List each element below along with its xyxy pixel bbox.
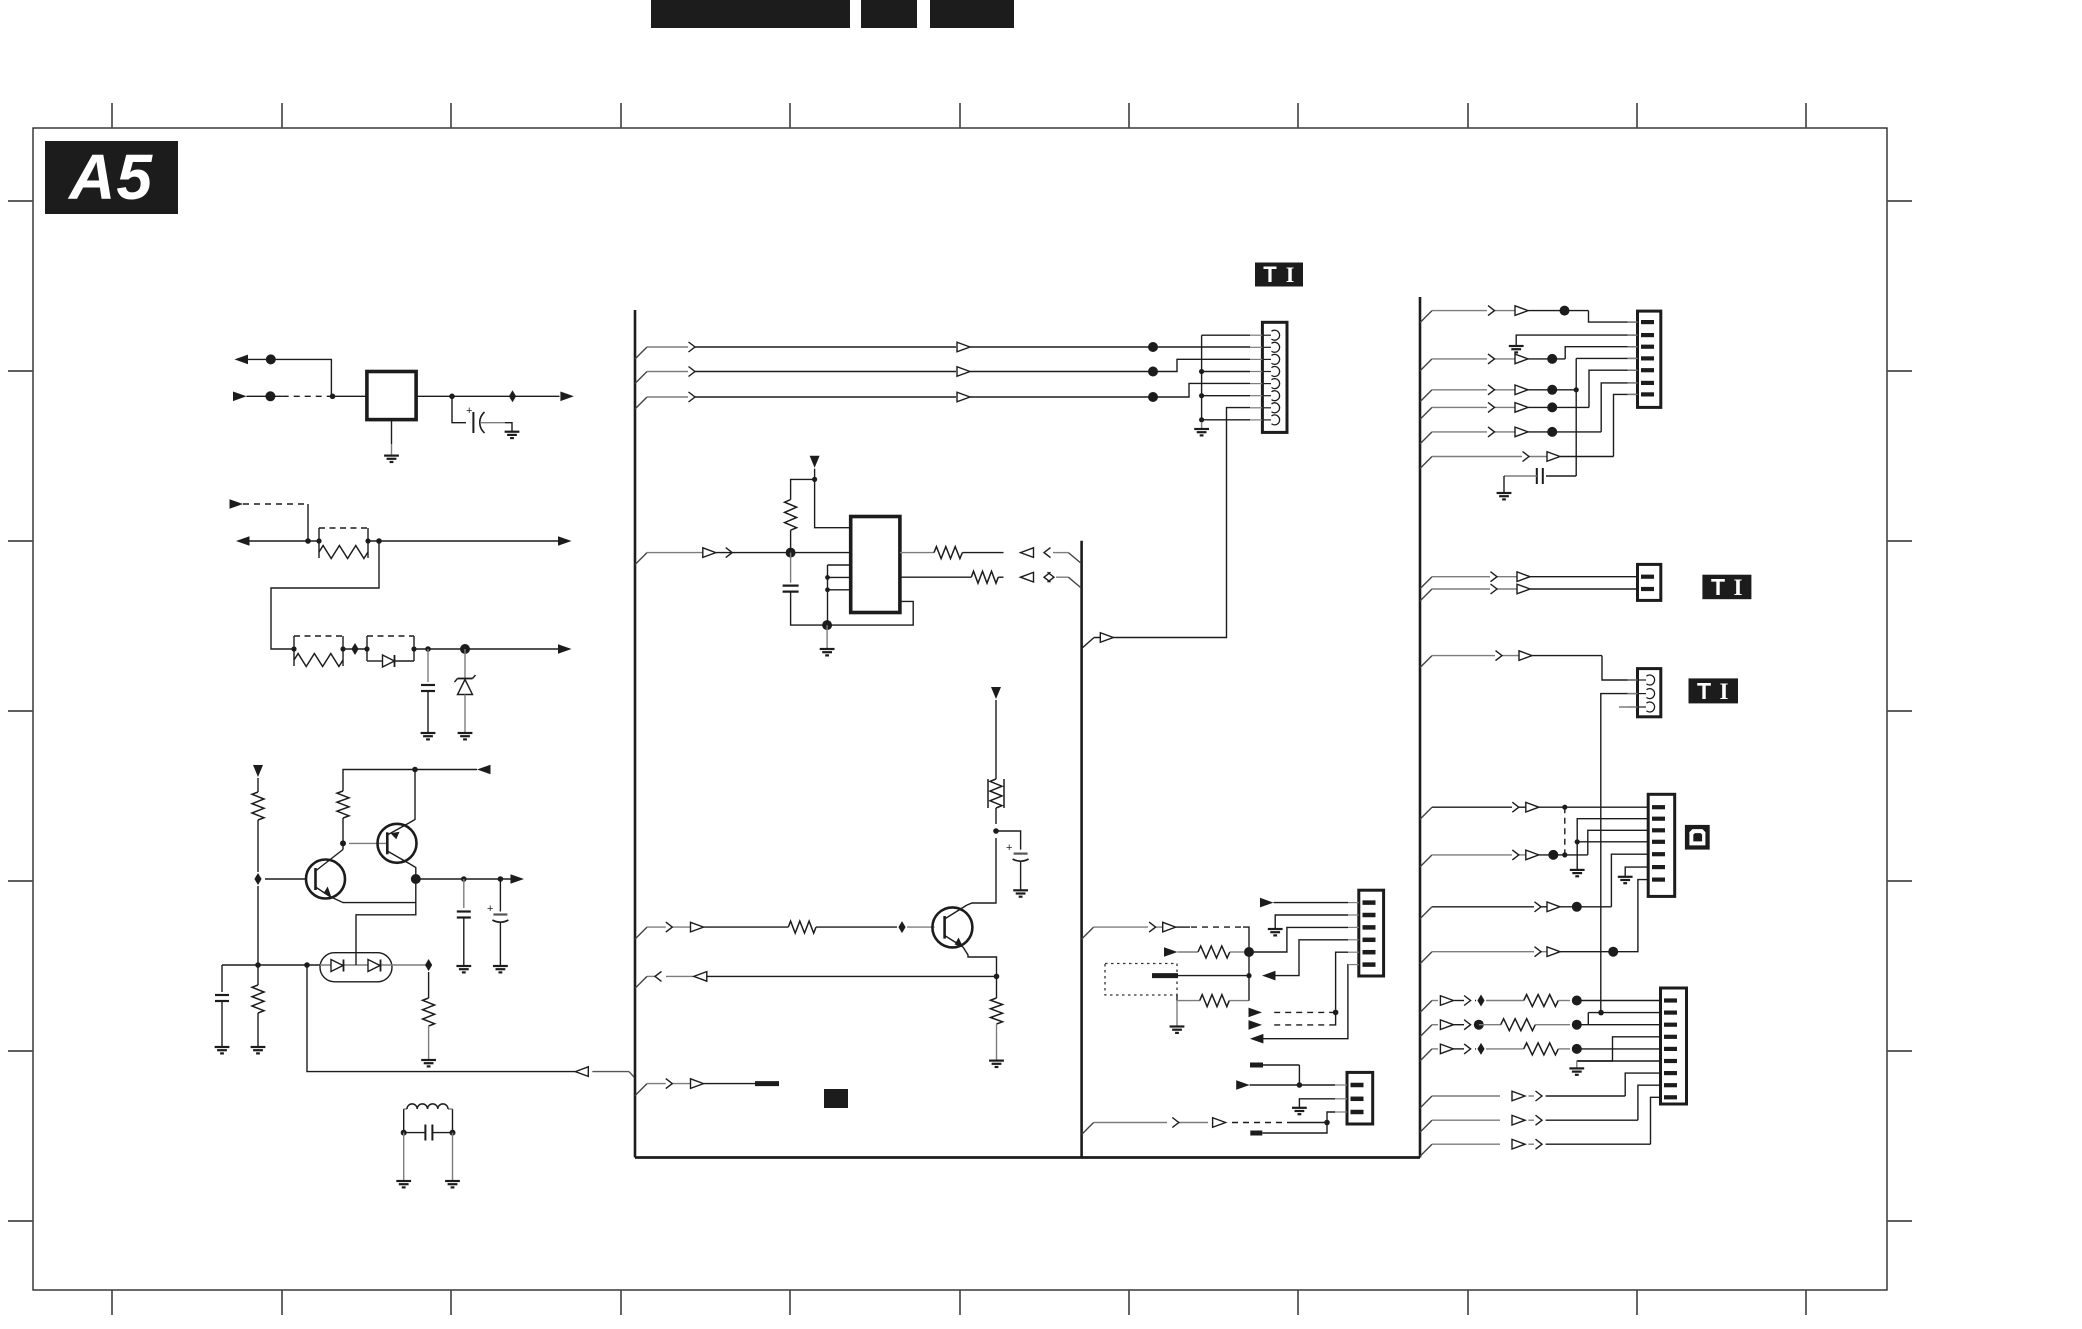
inductor L1 tank	[403, 1109, 405, 1133]
arrow chevron line T2	[689, 367, 696, 377]
arrow out relay output	[560, 392, 574, 402]
node dot CN4 row1	[1560, 306, 1570, 316]
node dot CN8 row2 a	[1474, 1020, 1484, 1030]
CN1 coil pin 5	[1250, 383, 1262, 385]
diamond diode row	[425, 959, 432, 971]
resistor R21	[252, 792, 264, 820]
CN8 pin bar 7	[1664, 1071, 1677, 1075]
arrow chevron line T3	[689, 392, 696, 402]
ground tank left	[396, 1180, 411, 1182]
wire line3 mid	[343, 648, 367, 650]
arrow chevron CN8 row4	[1536, 1091, 1543, 1101]
wire base node down	[257, 886, 259, 965]
arrow feedback open	[575, 1067, 588, 1077]
wire CN8 row1 to pin1	[1577, 1000, 1661, 1002]
node dot Q1/Q2	[340, 840, 346, 846]
wire feedback bus entry	[629, 1072, 635, 1078]
CN8 pin bar 6	[1664, 1059, 1677, 1063]
wire CN8 pin2 net	[1588, 1012, 1660, 1014]
wire bias chain down	[356, 879, 416, 958]
wire pinA to bus	[1053, 552, 1068, 554]
wire CN4 row1 bus entry	[1420, 311, 1432, 323]
node dot lower line	[265, 391, 275, 401]
node junction to lower line	[330, 394, 336, 400]
wire Q2 collector down	[410, 864, 416, 879]
arrow chevron Q3 row	[666, 922, 673, 932]
wire CN8 row1 res	[1486, 1000, 1524, 1002]
wire line T2	[647, 371, 688, 373]
diamond line3	[351, 643, 358, 655]
power feed V2	[810, 456, 820, 468]
power feed V3	[991, 687, 1001, 699]
wire R33 to diamond	[816, 926, 897, 928]
wire CN7 pin2+4 ground	[1577, 819, 1648, 870]
CN4 pin bar 5	[1628, 369, 1638, 371]
connector CN8 9-pin	[1661, 988, 1687, 1104]
node small CN7 row1	[1562, 805, 1567, 810]
wire upper input line	[248, 359, 332, 396]
arrow in pin5 a	[1249, 1008, 1263, 1018]
svg-text:T: T	[1263, 262, 1277, 287]
wire CN6 row bus entry	[1420, 656, 1432, 668]
wire lower input dashed segment	[283, 395, 331, 397]
CN8 pin bar 8	[1664, 1083, 1677, 1087]
svg-text:+: +	[1006, 842, 1012, 854]
wire CN4 row1 lead	[1432, 310, 1487, 312]
wire CN8 pin6 ground	[1577, 1060, 1661, 1062]
resistor R22 to ground	[257, 965, 259, 985]
node dot line2 b	[376, 538, 382, 544]
wire pin5 dashed b	[1274, 1024, 1330, 1026]
arrow chevron CN6	[1496, 651, 1503, 661]
wire CN3 pin1	[1250, 1084, 1335, 1086]
diode pair D21 capsule	[320, 953, 392, 982]
arrow in CN2 pin1	[1260, 898, 1274, 908]
wire CN7 row3 to pin5	[1611, 854, 1648, 907]
connector CN5 2-pin	[1638, 564, 1661, 600]
node dot V2	[812, 477, 817, 482]
wire CN4 row5 bus entry	[1420, 432, 1432, 444]
wire IC gnd stem	[826, 625, 828, 649]
wire emitter row bus entry	[635, 976, 647, 988]
wire CN7 row3	[1432, 906, 1534, 908]
wire CN7 row2 to pin3	[1588, 830, 1648, 855]
node dot CN4 row3	[1547, 385, 1557, 395]
arrow open CN3 row	[1213, 1118, 1226, 1128]
node dot tank left	[401, 1130, 407, 1136]
arrow open CN7 row4	[1547, 947, 1560, 957]
arrow open CN7 row1	[1526, 802, 1539, 812]
arrow open CN4 row3	[1515, 385, 1528, 395]
wire Q1 collector to node	[342, 843, 344, 849]
node dot left rail	[255, 962, 261, 968]
svg-text:I: I	[1734, 575, 1743, 600]
wire bar to node	[1178, 975, 1249, 977]
diamond base node	[254, 873, 261, 885]
ground relay box	[384, 455, 399, 457]
diamond CN8 row1	[1477, 995, 1484, 1007]
transistor Q2	[378, 824, 417, 863]
bus bottom horizontal	[635, 1156, 1420, 1159]
CN2 pin bar 5	[1348, 951, 1359, 953]
wire line T2 bus entry	[635, 372, 647, 384]
wire CN2 row1	[1094, 926, 1148, 928]
wire CN8 row4 to pin7	[1625, 1073, 1660, 1096]
wire pinB to bus	[1056, 576, 1068, 578]
wire base line Q1	[265, 878, 306, 880]
CN6 coil pin 1	[1628, 679, 1638, 681]
node dot CN3	[1324, 1120, 1330, 1126]
wire CN8 row6	[1432, 1143, 1500, 1145]
bus right vertical	[1419, 297, 1422, 1158]
wire CN4 row6 to pin7	[1560, 456, 1614, 458]
CN2 pin bar 6	[1348, 964, 1359, 966]
resistor R24 to ground	[428, 972, 430, 998]
node dot row a	[304, 962, 310, 968]
wire feed resistor	[1178, 951, 1199, 953]
svg-text:T: T	[1711, 574, 1725, 600]
arrow open CN4 row1	[1515, 306, 1528, 316]
node dot IC ground	[822, 620, 832, 630]
svg-text:I: I	[1286, 262, 1295, 287]
CN1 coil pin 3	[1250, 358, 1262, 360]
arrow in feed CN2	[1164, 947, 1178, 957]
wire CN4 row2 to pin3	[1528, 358, 1565, 360]
wire CN5 row2	[1432, 588, 1490, 590]
diamond Q3 base	[898, 921, 905, 933]
node dot CN8 pin2 link	[1598, 1010, 1604, 1016]
arrow open pin7 link	[1100, 633, 1113, 643]
arrow top rail	[477, 765, 491, 775]
ground C33	[1013, 889, 1028, 891]
arrow chevron CN4 row6	[1523, 452, 1530, 462]
arrow open CN8 row6	[1512, 1139, 1525, 1149]
wire CN8 row5	[1432, 1119, 1500, 1121]
top rail to arrow	[415, 769, 477, 771]
wire relay ground stem	[391, 420, 393, 444]
node dot out b	[498, 876, 504, 882]
node dot CN8 row2 b	[1572, 1020, 1582, 1030]
wire CN8 row5 to pin8	[1638, 1085, 1661, 1120]
arrow chevron CN7 row4	[1535, 947, 1542, 957]
wire CN1 pin4 stub	[1202, 371, 1250, 373]
CN3 pin bar 3	[1335, 1111, 1347, 1113]
wire R34 top	[995, 700, 997, 779]
arrow chevron stub row	[666, 1079, 673, 1089]
node dot top rail	[412, 767, 418, 773]
CN1 coil pin 7	[1250, 407, 1262, 409]
wire CN3 dashed	[1232, 1122, 1287, 1124]
node dot upper line	[266, 354, 276, 364]
arrow out right output	[511, 874, 525, 884]
wire CN6 pin2 long link	[1601, 694, 1638, 1013]
ground CN1	[1194, 428, 1209, 430]
wire CN1 pin8 stub	[1202, 419, 1250, 421]
redacted label box mid	[824, 1089, 848, 1108]
wire CN3 row	[1094, 1122, 1167, 1124]
node dot line3 b	[460, 644, 470, 654]
wire CN7 pin6 ground	[1625, 867, 1648, 877]
wire CN3 row bus entry	[1082, 1123, 1094, 1135]
arrow in pin5 b	[1249, 1020, 1263, 1030]
bus left vertical	[634, 310, 637, 1158]
wire CN2 pin1	[1274, 902, 1349, 904]
node dot T1	[1148, 342, 1158, 352]
wire CN4 row4 to pin5	[1528, 406, 1589, 408]
power feed V1	[253, 765, 263, 777]
wire Q2 emitter up to rail	[409, 770, 415, 824]
wire CN7 row3 bus entry	[1420, 907, 1432, 919]
wire CN1 gnd stem	[1201, 422, 1203, 429]
capacitor C41	[1542, 468, 1544, 484]
ground R35	[989, 1059, 1004, 1061]
header redaction bar 3	[930, 0, 1014, 28]
arrow open CN5 row1	[1517, 572, 1530, 582]
arrow chevron CN2 row1	[1149, 922, 1156, 932]
node dot CN3 pin1	[1297, 1082, 1303, 1088]
wire line T1 bus entry	[635, 347, 647, 359]
wire CN7 row4	[1432, 951, 1534, 953]
capacitor C21 to ground	[463, 879, 465, 908]
redacted label dash mid	[755, 1081, 779, 1086]
node dot gnd rail p8	[1199, 417, 1204, 422]
arrow open CN8 row4	[1512, 1091, 1525, 1101]
arrow open left pinB	[1021, 572, 1034, 582]
arrow out right line2	[558, 536, 572, 546]
wire CN6 row	[1432, 655, 1495, 657]
node dot pin5 link	[1333, 1010, 1339, 1016]
wire lower input line solid	[234, 395, 247, 397]
wire CN4 row5 to pin6	[1528, 431, 1601, 433]
dotted component box	[1105, 964, 1177, 996]
svg-text:I: I	[1720, 679, 1729, 704]
arrow chevron CN4 row2	[1488, 354, 1495, 364]
wire pin5 dashed a	[1274, 1011, 1333, 1013]
CN8 pin bar 2	[1664, 1010, 1677, 1014]
node dot line2 a	[305, 538, 311, 544]
arrow chevron CN7 row3	[1535, 902, 1542, 912]
CN7 pin bar 5	[1652, 852, 1665, 856]
node dot Q3 collector	[993, 828, 999, 834]
CN2 pin bar 1	[1348, 902, 1359, 904]
node dot CN4 row5	[1547, 427, 1557, 437]
wire output line	[416, 878, 512, 880]
arrow open Q3 row	[691, 922, 704, 932]
wire V2 to IC pin1	[815, 479, 851, 527]
wire CN2 row1 bus entry	[1082, 927, 1094, 939]
wire CN8 row3	[1432, 1048, 1438, 1050]
wire IC right pin A	[900, 552, 934, 554]
CN6 coil pin 3	[1628, 706, 1638, 708]
arrow in right (dashed feed)	[230, 499, 244, 509]
wire dotted box ground	[1176, 1001, 1178, 1027]
arrow open CN4 row6	[1547, 452, 1560, 462]
redacted stub in dotted box	[1152, 973, 1178, 978]
wire CN4 row1 to pin1	[1528, 310, 1589, 312]
wire CN8 row3 res	[1486, 1048, 1524, 1050]
arrow chevron CN7 row2	[1512, 850, 1519, 860]
wire bottom stub row	[635, 1084, 647, 1096]
transistor Q3	[932, 907, 972, 947]
ground R24	[421, 1059, 436, 1061]
wire line2 right segment	[368, 540, 560, 542]
frame grid tick marks	[111, 103, 113, 128]
wire CN5 row2 bus entry	[1420, 589, 1432, 601]
wire CN7 row2	[1432, 854, 1512, 856]
wire CN4 row6 lead	[1432, 456, 1522, 458]
wire CN5 row1 bus entry	[1420, 577, 1432, 589]
wire emitter return row	[704, 975, 997, 977]
wire CN4 row4 lead	[1432, 406, 1487, 408]
arrow chevron CN8 row2	[1464, 1020, 1471, 1030]
CN2 pin bar 3	[1348, 926, 1359, 928]
arrow chevron IC feed	[726, 548, 733, 558]
arrow open CN4 row5	[1515, 427, 1528, 437]
wire CN1 pin7 long link	[1094, 408, 1250, 638]
CN8 pin bar 1	[1664, 998, 1677, 1002]
connector CN1 8-pin coil	[1262, 322, 1287, 432]
ground CN4 pin2	[1509, 345, 1524, 347]
node dot tank right	[450, 1130, 456, 1136]
ground R22	[251, 1046, 266, 1048]
wire CN4 pin2 ground	[1516, 335, 1637, 346]
CN8 pin bar 4	[1664, 1035, 1677, 1039]
wire CN4 row5 lead	[1432, 431, 1487, 433]
ground CN7 left	[1570, 869, 1585, 871]
diode D11 alternate dashed box	[367, 635, 414, 637]
CN6 coil pin 2	[1628, 693, 1638, 695]
node dot CN7 gnd	[1575, 839, 1580, 844]
wire line2 down-jog to line3	[271, 541, 379, 649]
wire CN8 row2 bus entry	[1420, 1025, 1432, 1037]
wire CN8 row2 res	[1479, 1024, 1501, 1026]
wire CN4 row3	[1528, 389, 1576, 391]
wire CN7 row1	[1432, 806, 1512, 808]
node dot CN8 row3	[1572, 1044, 1582, 1054]
arrow open CN7 row2	[1526, 850, 1539, 860]
wire CN8 row3 bus entry	[1420, 1049, 1432, 1061]
arrow open CN8 row3	[1440, 1044, 1453, 1054]
arrow open CN5 row2	[1517, 584, 1530, 594]
arrow open CN2 row1	[1163, 922, 1176, 932]
node dot CN4 row3 vert	[1574, 387, 1579, 392]
wire CN2 pin6	[1262, 965, 1348, 1039]
wire IC right pin B	[900, 576, 971, 578]
node dot CN7 row4	[1608, 947, 1618, 957]
wire to decoupling cap	[452, 396, 466, 422]
wire CN2 row1 dashed	[1191, 926, 1243, 928]
CN4 pin bar 6	[1628, 382, 1638, 384]
bus middle vertical	[1080, 541, 1083, 1158]
ground IC	[820, 648, 835, 650]
connector CN3 3-pin	[1347, 1072, 1373, 1124]
node dot CN4 row2	[1547, 354, 1557, 364]
arrow open line T1	[957, 342, 970, 352]
relay box K1	[367, 372, 416, 420]
arrow open CN4 row2	[1515, 354, 1528, 364]
ground CN7 pin6	[1618, 876, 1633, 878]
wire dashed feed	[243, 503, 308, 505]
arrow open CN8 row2	[1440, 1020, 1453, 1030]
arrow chevron CN8 row5	[1536, 1115, 1543, 1125]
wire T1 to CN1 pin2	[1153, 346, 1250, 348]
arrow chevron CN5 row1	[1491, 572, 1498, 582]
wire CN1 ground rail	[1201, 335, 1203, 422]
wire Q1 emitter	[330, 897, 416, 903]
transistor Q1	[306, 860, 345, 899]
wire diamond to Q3	[907, 926, 935, 928]
wire tank grounds	[403, 1133, 405, 1181]
resistor R33	[788, 921, 816, 933]
CN2 pin bar 4	[1348, 939, 1359, 941]
arrow out CN2 pin6	[1250, 1034, 1264, 1044]
ground D12	[458, 732, 473, 734]
arrow chevron left emitter row	[655, 971, 662, 981]
IC U1 box	[851, 517, 900, 613]
wire T3 jog to CN1 pin5	[1153, 383, 1250, 397]
wire CN2 pin2 ground	[1275, 915, 1348, 929]
svg-text:A5: A5	[67, 141, 153, 213]
redacted label dash CN3 upper	[1250, 1063, 1263, 1068]
node dot output big	[411, 874, 421, 884]
wire CN6 pin3 stub	[1619, 706, 1638, 708]
arrow open line T2	[957, 367, 970, 377]
wire CN6 to pin1	[1532, 655, 1602, 657]
arrow chevron CN4 row1	[1488, 306, 1495, 316]
arrow open stub row	[691, 1079, 704, 1089]
node dot CN7 row3	[1572, 902, 1582, 912]
arrow open CN8 row5	[1512, 1115, 1525, 1125]
arrow open CN4 row4	[1515, 403, 1528, 413]
capacitor C23 to ground	[221, 965, 223, 992]
wire CN7 dashed tie	[1564, 807, 1566, 855]
ground C23	[215, 1046, 230, 1048]
arrow open left emitter row	[694, 972, 707, 982]
wire CN3 node to pin3	[1327, 1112, 1335, 1123]
wire into relay box	[333, 395, 367, 397]
CN7 pin bar 6	[1652, 865, 1665, 869]
ground C1	[505, 431, 520, 433]
CN1 coil pin 6	[1250, 395, 1262, 397]
svg-text:+: +	[466, 405, 472, 417]
wire IC bottom-right pin	[827, 601, 913, 625]
header redaction bar 1	[651, 0, 850, 28]
ground CN8	[1569, 1067, 1584, 1069]
node dot T2	[1148, 367, 1158, 377]
arrow out CN2 pin4	[1262, 971, 1276, 981]
wire CN4 row3 lead	[1432, 389, 1487, 391]
wire CN4 pin4 vertical	[1576, 357, 1637, 359]
CN5 pin bar 2	[1641, 587, 1654, 591]
arrow open CN6	[1519, 651, 1532, 661]
wire CN4 cap link	[1546, 475, 1576, 477]
ground C22	[493, 965, 508, 967]
wire relay output	[416, 395, 559, 397]
ground tank right	[445, 1180, 460, 1182]
wire CN4 row4 bus entry	[1420, 407, 1432, 419]
node dot T3	[1148, 392, 1158, 402]
node dot CN8 row1	[1572, 996, 1582, 1006]
wire CN4 row2 lead	[1432, 358, 1487, 360]
wire line2 left segment	[249, 540, 319, 542]
CN7 pin bar 3	[1652, 828, 1665, 832]
board label A5	[45, 141, 178, 214]
svg-text:T: T	[1697, 678, 1711, 704]
wire CN8 pin4 gnd link	[1577, 1037, 1661, 1061]
node dot CN4 row4	[1547, 402, 1557, 412]
CN2 pin bar 2	[1348, 914, 1359, 916]
wire CN3 node to label	[1262, 1123, 1327, 1134]
